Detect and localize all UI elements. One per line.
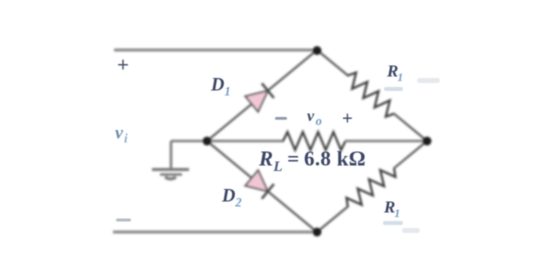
svg-text:+: + (117, 53, 129, 77)
svg-text:vi: vi (115, 123, 128, 146)
wire diagonal left-top (diode branch) (207, 50, 317, 141)
wire diagonal top-right lead in (317, 50, 349, 76)
svg-text:D2: D2 (221, 187, 242, 210)
svg-text:vo: vo (307, 108, 322, 128)
diode D1 (245, 83, 274, 111)
svg-text:R1: R1 (383, 198, 400, 221)
wire left node to ground stub (171, 140, 207, 143)
smudge artifact near R1 bottom (383, 221, 403, 225)
label - (bottom input terminal) (116, 219, 131, 222)
wire diagonal bottom-right lead in (317, 206, 349, 232)
node top (313, 46, 322, 55)
svg-text:R1: R1 (386, 62, 403, 85)
ground (152, 170, 189, 179)
svg-text:RL = 6.8 kΩ: RL = 6.8 kΩ (258, 147, 366, 176)
resistor R1 top zigzag (348, 73, 394, 117)
wire bottom rail (113, 231, 317, 234)
node left (203, 137, 212, 146)
wire top rail (114, 49, 317, 52)
diode D2 (245, 170, 274, 198)
node bottom (313, 228, 322, 237)
smudge artifact near R1 top (384, 87, 403, 91)
resistor R1 bottom zigzag (347, 168, 396, 206)
wire diagonal top-right lead out (394, 113, 428, 141)
wire ground vertical (170, 141, 173, 168)
node right (423, 137, 432, 146)
wire diagonal left-bottom (diode branch) (207, 141, 317, 232)
wire diagonal bottom-right lead out (394, 141, 428, 169)
svg-text:D1: D1 (210, 76, 231, 99)
svg-text:+: + (342, 109, 353, 130)
label - (vo polarity minus) (275, 117, 287, 120)
wire middle right segment (345, 140, 427, 143)
resistor RL zigzag (283, 132, 346, 150)
wire middle left segment (207, 140, 284, 143)
